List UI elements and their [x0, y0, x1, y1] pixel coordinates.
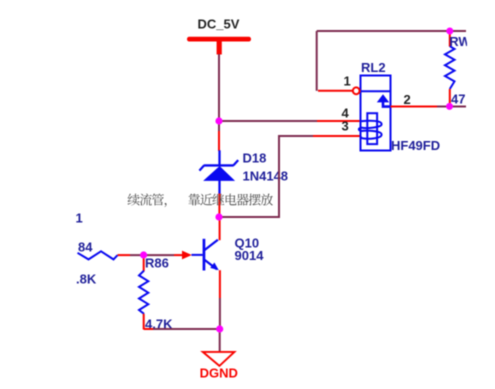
svg-text:DC_5V: DC_5V — [198, 17, 240, 32]
svg-text:HF49FD: HF49FD — [391, 138, 440, 153]
junction F dot — [446, 103, 453, 110]
wire R86 bottom to junction D — [144, 328, 220, 330]
wire junction D to ground — [219, 329, 221, 352]
svg-text:1: 1 — [344, 74, 351, 89]
svg-text:84: 84 — [78, 240, 93, 255]
wire junction B to relay pin 3 — [219, 136, 361, 217]
junction D dot — [216, 325, 223, 332]
relay coil loops — [359, 121, 382, 139]
relay RL2 body — [361, 76, 391, 151]
svg-text:1N4148: 1N4148 — [243, 168, 289, 183]
diode D18 — [199, 150, 238, 194]
wire resistor 84 to base — [118, 254, 184, 256]
wire relay pin 2 — [391, 106, 467, 108]
svg-text:D18: D18 — [243, 150, 267, 165]
svg-text:1: 1 — [76, 211, 83, 226]
wire DC_5V to junction A — [218, 54, 220, 121]
svg-text:RL2: RL2 — [361, 60, 386, 75]
annotation chinese text — [128, 194, 273, 208]
relay coil core — [367, 113, 377, 144]
relay contact arrow — [377, 94, 391, 106]
svg-text:2: 2 — [404, 92, 411, 107]
wire junction A to diode cathode — [218, 121, 220, 151]
wire diode anode to junction B — [218, 194, 220, 218]
svg-text:.8K: .8K — [76, 272, 97, 287]
junction E dot — [446, 28, 453, 35]
resistor R86 — [139, 255, 148, 330]
wire base arrow — [182, 251, 192, 260]
svg-text:47: 47 — [451, 92, 465, 107]
junction C dot — [140, 251, 147, 258]
clip mask right edge — [467, 0, 495, 389]
ground DGND symbol — [203, 352, 235, 366]
svg-text:R86: R86 — [145, 256, 169, 271]
wire Q10 emitter down — [219, 270, 221, 329]
junction A dot — [215, 117, 222, 124]
resistor RW — [445, 31, 455, 106]
wire junction A to relay pin 4 — [219, 120, 361, 122]
svg-text:DGND: DGND — [200, 366, 238, 381]
wire junction B to Q10 collector — [219, 217, 221, 240]
svg-text:9014: 9014 — [235, 248, 265, 263]
junction B dot — [215, 213, 222, 220]
resistor 84 (clipped at left) — [78, 251, 118, 259]
svg-text:3: 3 — [342, 119, 349, 134]
power symbol DC_5V bar — [187, 37, 251, 55]
pin 1 circle — [353, 87, 360, 94]
wire to pin 1 — [317, 31, 466, 91]
transistor Q10 — [192, 239, 219, 271]
